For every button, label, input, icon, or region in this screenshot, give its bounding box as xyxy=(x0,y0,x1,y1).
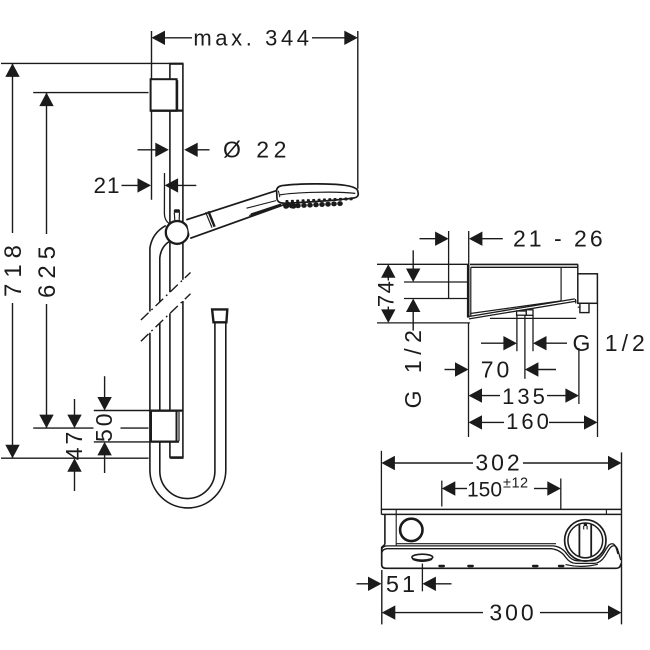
svg-text:300: 300 xyxy=(489,600,536,626)
svg-text:302: 302 xyxy=(475,450,522,476)
svg-text:21: 21 xyxy=(93,173,120,198)
svg-text:max. 344: max. 344 xyxy=(193,26,312,51)
svg-text:G 1/2: G 1/2 xyxy=(573,330,649,356)
svg-text:160: 160 xyxy=(506,409,552,434)
svg-text:47: 47 xyxy=(61,429,87,461)
svg-text:21 - 26: 21 - 26 xyxy=(513,226,606,252)
svg-text:Ø 22: Ø 22 xyxy=(223,137,291,163)
svg-text:50: 50 xyxy=(91,410,117,442)
svg-text:718: 718 xyxy=(0,239,27,297)
svg-text:150: 150 xyxy=(467,479,502,502)
svg-text:G 1/2: G 1/2 xyxy=(400,325,426,409)
svg-text:±12: ±12 xyxy=(503,476,529,492)
svg-text:625: 625 xyxy=(34,240,61,298)
svg-text:51: 51 xyxy=(386,571,418,597)
svg-text:70: 70 xyxy=(481,356,513,382)
svg-text:74: 74 xyxy=(373,280,398,307)
svg-text:135: 135 xyxy=(502,384,548,409)
